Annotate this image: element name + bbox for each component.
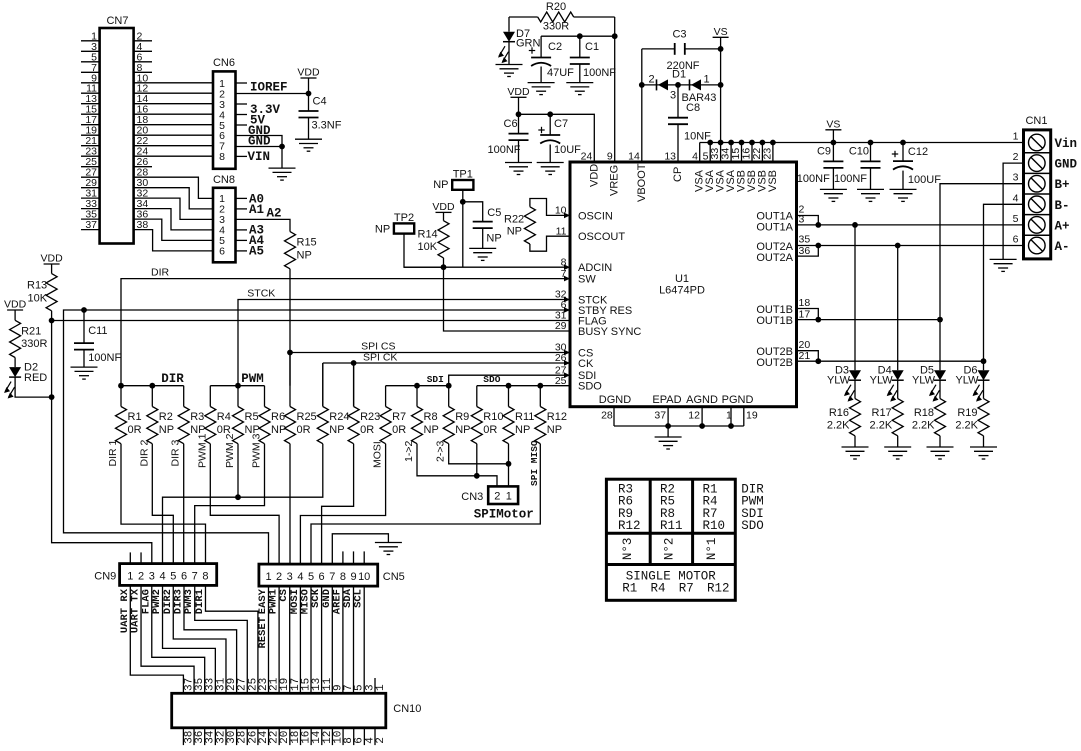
svg-text:B+: B+ [1055,178,1070,192]
svg-text:TP2: TP2 [394,212,414,224]
svg-text:100UF: 100UF [908,174,941,186]
svg-text:12: 12 [688,410,700,422]
svg-text:NP: NP [271,424,286,436]
capacitor C1 100NF [570,36,616,82]
svg-text:8: 8 [202,570,208,582]
wire ground bus under U1 [614,407,744,437]
svg-text:330R: 330R [21,338,47,350]
svg-text:DIR 2: DIR 2 [138,440,150,467]
ground (C7) [537,163,564,175]
svg-text:R10: R10 [703,519,726,533]
resistor R2 NP [147,386,174,444]
svg-text:R17: R17 [872,407,892,419]
svg-text:2.2K: 2.2K [955,420,978,432]
svg-text:R18: R18 [914,407,934,419]
svg-text:3: 3 [287,571,293,583]
wire MISO: R12 to CN5 pin5 [311,444,540,564]
svg-text:19: 19 [746,410,758,422]
wires CN9 pins to CN10 [130,585,258,693]
svg-text:0R: 0R [483,424,497,436]
svg-text:23: 23 [761,148,773,160]
net labels CN9 pins [119,588,206,633]
svg-text:R7: R7 [679,582,694,596]
svg-text:NP: NP [159,424,174,436]
capacitor C3 220NF [642,29,721,73]
wire CN5 GND pin7 to ground [332,534,388,564]
node SDO [477,374,570,389]
svg-text:VDD: VDD [41,253,64,265]
svg-text:CN1: CN1 [1025,115,1047,127]
svg-text:37: 37 [654,410,666,422]
svg-text:R13: R13 [27,280,47,292]
capacitor C4 3.3NF [299,94,342,140]
wire BUSY SYNC riser [444,267,571,331]
wire SCK: R23 to CN5 pin6 [322,444,354,564]
ground (C6) [505,163,532,175]
wire VS vertical [718,46,724,143]
svg-text:100NF: 100NF [488,144,521,156]
svg-text:C10: C10 [849,146,869,158]
svg-text:1: 1 [704,74,710,86]
capacitor C8 10NF [668,85,711,162]
resistor R16 2.2K [827,399,861,447]
svg-text:2: 2 [375,737,387,744]
svg-text:R15: R15 [297,237,317,249]
connector CN10 [172,677,422,745]
ground (C5) [469,248,496,260]
svg-text:C7: C7 [554,118,568,130]
resistor R18 2.2K [912,399,946,447]
wire VDD rail to U1 pin24 [516,111,595,162]
ground (C12) [890,189,917,201]
svg-text:1: 1 [1013,131,1019,143]
svg-text:47UF: 47UF [547,67,574,79]
svg-text:SDI: SDI [427,374,444,385]
svg-text:0R: 0R [297,424,311,436]
resistor R23 0R [348,363,380,444]
svg-text:R9: R9 [455,411,469,423]
svg-text:R4: R4 [651,582,666,596]
svg-text:1: 1 [375,684,387,691]
svg-text:10: 10 [358,571,370,583]
net labels CN5 pins [257,588,365,614]
ground (D7) [496,65,523,77]
svg-text:N°2: N°2 [663,538,677,561]
resistor R21 330R [10,320,48,367]
test point TP1 NP [433,169,473,202]
resistor R10 0R [471,386,503,444]
svg-text:OSCOUT: OSCOUT [578,231,625,243]
svg-text:2.2K: 2.2K [870,420,893,432]
svg-text:SW: SW [578,274,596,286]
svg-text:CK: CK [578,358,594,370]
svg-text:NP: NP [515,424,530,436]
connector CN3 SPIMotor [461,486,518,504]
svg-text:3: 3 [670,90,676,102]
svg-text:NP: NP [424,424,439,436]
wire PWM3: R6 to CN9 pin7 [195,444,265,564]
diode D1 BAR43 [642,69,721,105]
wire OUT2A to CN1 A- and D4 [797,243,1024,371]
svg-text:R10: R10 [483,411,503,423]
svg-text:2: 2 [649,74,655,86]
svg-text:CN3: CN3 [461,491,483,503]
svg-text:IOREF: IOREF [250,81,288,95]
svg-text:3: 3 [1013,172,1019,184]
svg-text:28: 28 [601,410,613,422]
svg-text:DIR 1: DIR 1 [107,440,119,467]
svg-text:DIR: DIR [161,372,184,386]
svg-text:NP: NP [455,424,470,436]
svg-text:0R: 0R [392,424,406,436]
resistor R3 NP [178,386,205,444]
wire 1->2: R8/R10 to CN3 pin2 [417,444,497,487]
svg-text:STCK: STCK [247,287,275,299]
wire R15 to SPI CS [289,269,291,353]
ground (U1 EPAD) [655,437,682,449]
wire STCK trunk [238,300,570,386]
svg-text:D1: D1 [672,69,686,81]
svg-text:N°1: N°1 [705,538,719,561]
connector CN1 screw terminal [1013,115,1051,259]
resistor R22 NP [504,199,570,252]
wire PWM1: R4 to CN5 pin2 [210,444,279,564]
svg-text:R4: R4 [217,411,231,423]
svg-text:OUT2B: OUT2B [756,357,793,369]
ground (D5 chain) [927,447,954,459]
wire OUT1B to CN1 B+ and D5 [797,184,1024,371]
led D3 YLW [827,365,861,402]
svg-text:SDO: SDO [741,519,764,533]
svg-text:NP: NP [433,179,448,191]
connector CN7 [81,15,152,244]
pin numbers 4,5,33,34,15,16,22,23 [692,148,773,163]
wires CN5 pins to CN10 [269,586,365,693]
ground (C9) [820,189,847,201]
svg-text:EPAD: EPAD [652,394,681,406]
svg-text:0R: 0R [360,424,374,436]
svg-text:CP: CP [672,167,684,182]
svg-text:OUT1B: OUT1B [756,315,793,327]
svg-text:2.2K: 2.2K [912,420,935,432]
led D4 YLW [870,365,904,402]
svg-text:6: 6 [219,246,225,258]
svg-text:R5: R5 [245,411,259,423]
svg-text:VBOOT: VBOOT [636,163,648,202]
svg-text:R12: R12 [547,411,567,423]
svg-text:C6: C6 [504,118,518,130]
svg-text:OUT2A: OUT2A [756,252,793,264]
svg-text:R12: R12 [618,519,641,533]
svg-text:SDO: SDO [483,374,500,385]
svg-text:SPIMotor: SPIMotor [474,508,534,522]
svg-text:5: 5 [170,570,176,582]
svg-text:VDD: VDD [432,201,455,213]
svg-text:24: 24 [581,151,593,163]
svg-text:GRN: GRN [516,38,541,50]
capacitor C5 NP [473,207,502,248]
svg-text:NP: NP [507,225,522,237]
wire OUT1A to CN1 A+ and D3 [797,216,1024,371]
capacitor C11 100NF [74,310,121,367]
wire VBOOT (U1 pin14) [639,49,645,162]
svg-text:17: 17 [799,308,811,320]
svg-text:A1: A1 [249,203,264,217]
wire SPI CS (U1 pin30) [287,350,570,386]
svg-text:A2: A2 [267,207,282,221]
svg-text:100NF: 100NF [797,173,830,185]
node PWM [210,372,264,389]
svg-text:R20: R20 [546,1,566,13]
svg-text:VDD: VDD [4,299,27,311]
node SDI [386,374,570,389]
svg-text:9: 9 [350,571,356,583]
svg-text:SPI CK: SPI CK [363,351,397,363]
svg-text:YLW: YLW [912,375,936,387]
ground (CN5 pin7) [375,543,402,555]
svg-text:1->2: 1->2 [403,441,415,462]
svg-text:7: 7 [329,571,335,583]
wire CN7 pins 10-24 to CN6 [134,83,213,156]
svg-text:VREG: VREG [609,165,621,196]
svg-text:NP: NP [329,424,344,436]
resistor R19 2.2K [955,399,989,447]
resistor R11 NP [503,386,534,444]
resistor R14 10K [418,221,450,268]
resistor R12 NP [535,386,567,444]
svg-text:CN9: CN9 [94,570,116,582]
svg-text:VS: VS [826,118,840,130]
svg-text:CN10: CN10 [393,703,421,715]
pin numbers U1 top 24,9,14,13 [581,151,677,163]
power VS (above C9) [825,118,841,142]
svg-text:35: 35 [799,234,811,246]
resistor R7 0R [380,386,406,444]
net labels under resistors [107,433,447,468]
connector CN5 [259,551,405,586]
wire FLAG trunk [49,318,570,564]
svg-text:37: 37 [85,219,97,231]
ground (D6 chain) [970,447,997,459]
wire SPI CK (U1 pin26) [323,360,570,406]
svg-text:6: 6 [319,571,325,583]
svg-text:C2: C2 [548,41,562,53]
U1 left pin names/numbers [555,205,642,393]
svg-text:R23: R23 [360,411,380,423]
svg-text:R11: R11 [660,519,683,533]
power VDD (above C4) [297,67,320,94]
svg-text:N°3: N°3 [621,538,635,561]
svg-text:C4: C4 [313,96,327,108]
svg-text:1: 1 [506,490,512,502]
svg-text:R6: R6 [271,411,285,423]
svg-text:C12: C12 [908,146,928,158]
svg-text:YLW: YLW [827,375,851,387]
ground (CN1) [990,259,1017,271]
svg-text:C8: C8 [686,102,700,114]
svg-text:8: 8 [340,571,346,583]
capacitor C9 100NF [797,143,844,190]
svg-text:B-: B- [1055,199,1070,213]
wire DIR1: R1 to CN9 pin8 [121,444,206,564]
svg-text:SINGLE MOTOR: SINGLE MOTOR [626,570,717,584]
svg-text:A+: A+ [1055,219,1070,233]
svg-text:6: 6 [181,570,187,582]
svg-text:YLW: YLW [870,375,894,387]
svg-text:R3: R3 [190,411,204,423]
svg-text:DIR1: DIR1 [194,589,206,614]
svg-text:R1: R1 [128,411,142,423]
svg-text:DIR 3: DIR 3 [170,440,182,467]
svg-text:MOSI: MOSI [372,441,384,468]
svg-text:PWM 1: PWM 1 [196,433,208,468]
svg-text:PWM 3: PWM 3 [251,433,263,468]
svg-text:2: 2 [138,570,144,582]
svg-text:R16: R16 [829,407,849,419]
resistor R25 0R [285,353,317,444]
resistor R20 330R [509,1,615,33]
svg-text:R21: R21 [21,326,41,338]
svg-text:A5: A5 [249,245,264,259]
IC U1 L6474PD [570,162,797,407]
wire ADCIN line [404,264,570,270]
ground (C4) [295,139,322,151]
resistor R17 2.2K [870,399,904,447]
svg-text:L6474PD: L6474PD [659,285,705,297]
svg-text:DIR: DIR [151,266,170,278]
table resistor mapping [606,479,764,600]
svg-text:R11: R11 [515,411,534,423]
wire CS: R25 to CN5 pin3 [289,444,291,564]
svg-text:YLW: YLW [955,375,979,387]
capacitor C12 100UF [892,143,941,190]
resistor R1 0R [116,386,142,444]
svg-text:AGND: AGND [686,394,718,406]
svg-text:2: 2 [276,571,282,583]
svg-text:1: 1 [127,570,133,582]
svg-text:C5: C5 [487,207,501,219]
wire VS bus to CN1 pin1 [700,140,1024,162]
power VDD (above R21) [4,299,27,321]
svg-text:NP: NP [297,250,312,262]
svg-text:DGND: DGND [599,394,631,406]
U1 bottom pins DGND EPAD AGND PGND [599,394,758,422]
svg-text:10UF: 10UF [554,144,581,156]
svg-text:1: 1 [265,571,271,583]
led D5 YLW [912,365,946,402]
svg-text:36: 36 [799,245,811,257]
svg-text:0R: 0R [128,424,142,436]
power VDD (above C6/C7) [507,86,530,115]
power VDD (above R13) [41,253,64,274]
power VDD (above R14) [432,201,455,221]
svg-text:2.2K: 2.2K [827,420,850,432]
svg-text:NP: NP [486,233,501,245]
wire MOSI: R7 to CN5 pin4 [300,444,385,564]
led D6 YLW [955,365,989,402]
svg-text:RESET: RESET [257,617,269,649]
resistor R9 NP [443,386,470,444]
resistor R8 NP [412,386,439,444]
ground (C10) [857,189,884,201]
wire OUT2B to CN1 B- and D6 [797,204,1024,370]
svg-text:GND: GND [1055,158,1078,172]
wire CN1 GND to ground [1003,163,1023,259]
svg-text:4: 4 [297,571,303,583]
svg-text:6: 6 [1013,234,1019,246]
svg-text:5: 5 [1013,213,1019,225]
svg-text:ADCIN: ADCIN [578,262,612,274]
svg-text:PGND: PGND [722,394,754,406]
ground (C2) [528,83,555,95]
connector CN6 [213,57,247,169]
svg-text:14: 14 [628,151,640,163]
wire PWM2: R5/R24 to CN9 pin4 [163,444,323,564]
svg-text:A-: A- [1055,240,1070,254]
svg-text:VDD: VDD [588,164,600,187]
svg-text:VSB: VSB [767,170,779,192]
svg-text:R2: R2 [159,411,173,423]
svg-text:CN7: CN7 [106,15,128,27]
svg-text:3: 3 [149,570,155,582]
svg-text:100NF: 100NF [583,67,616,79]
wire IOREF to C4 [236,91,312,97]
svg-text:VS: VS [714,26,728,38]
svg-text:100NF: 100NF [834,173,867,185]
svg-text:CN8: CN8 [213,174,235,186]
svg-text:10K: 10K [418,241,438,253]
svg-text:C3: C3 [672,29,686,41]
svg-text:10K: 10K [28,293,48,305]
wire DIR2: R2 to CN9 pin5 [152,444,173,564]
wire CN6 GND pins to ground [236,136,285,169]
capacitor C7 10UF [538,114,581,162]
svg-text:R12: R12 [707,582,730,596]
svg-text:5: 5 [308,571,314,583]
svg-text:100NF: 100NF [88,352,121,364]
svg-text:U1: U1 [675,273,689,285]
pin names U1 top rotated [588,163,779,202]
svg-text:3.3NF: 3.3NF [312,120,342,132]
capacitor C2 47UF [529,36,574,82]
led D7 GRN [498,17,541,65]
svg-text:4: 4 [159,570,165,582]
resistor R24 NP [317,363,349,444]
test point TP2 NP [375,212,444,267]
svg-text:R24: R24 [329,411,349,423]
svg-text:330R: 330R [543,21,569,33]
svg-text:R7: R7 [392,411,406,423]
connector CN8 [213,174,247,262]
wire VREG node [541,17,618,162]
resistor R6 NP [259,386,286,444]
ground (D3 chain) [842,447,869,459]
wire DIR3: R3 to CN9 pin6 [183,444,185,564]
svg-text:BUSY SYNC: BUSY SYNC [578,326,641,338]
wire DIR trunk (U1 SW) [121,279,570,386]
svg-text:R1: R1 [622,582,637,596]
wire CN7 pins 28-38 to CN8 [134,177,213,251]
svg-text:C9: C9 [817,146,831,158]
ground (D4 chain) [884,447,911,459]
ground (C11) [71,367,98,379]
svg-text:4: 4 [1013,192,1019,204]
svg-text:9: 9 [607,151,613,163]
svg-text:OUT1A: OUT1A [756,222,793,234]
svg-text:CN5: CN5 [383,571,405,583]
resistor R15 NP [285,232,317,269]
svg-text:VDD: VDD [507,86,530,98]
